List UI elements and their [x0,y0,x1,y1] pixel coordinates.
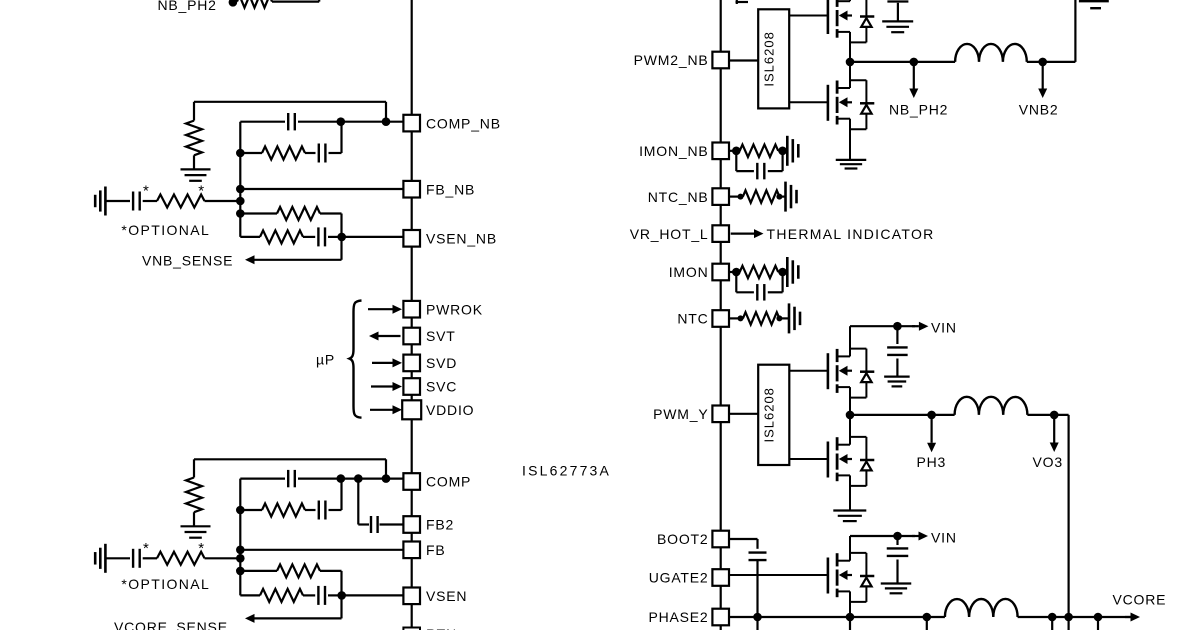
glyph remnant top (cut label) [736,0,749,4]
wire NB_PH2 sense to top edge [272,0,319,2]
junction dot optional [236,554,245,563]
inductor L2 [945,599,1018,617]
wire PHASE2 node [729,616,945,618]
ground Q4 source [833,511,866,522]
junction dot VSEN [337,233,346,242]
pin BOOT2 [657,531,729,548]
pin VR_HOT_L [630,225,729,242]
arrow into VDDIO [370,405,402,414]
junction dot VIN cap phase2 [893,532,902,541]
pin FB2 [403,516,454,533]
wire COMP pin [240,478,403,480]
IC ISL62773A left edge [411,0,413,630]
wire comp top corner down [385,459,387,478]
svg-text:IMON_NB: IMON_NB [639,143,708,159]
ground (rotated right) [786,182,797,212]
junction dot R branch [236,209,245,218]
net label NB_PH2 (top left, cut) [158,0,217,13]
resistor NB_PH2 sense (cut at top) [237,0,272,8]
svg-text:SVD: SVD [426,355,457,371]
svg-text:SVT: SVT [426,328,456,344]
arrow PH3 tap (down) [927,415,936,452]
svg-text:COMP_NB: COMP_NB [426,115,501,131]
ground VIN cap phase2 [881,584,912,594]
node dot NB phase [846,58,855,67]
wire VSEN pin [342,236,404,238]
arrow into SVD [372,358,402,367]
wire sense line [340,595,342,618]
ground below vertical resistor [181,526,211,537]
wire NB phase node [850,61,955,63]
svg-text:VNB_SENSE: VNB_SENSE [142,252,233,268]
wire R branch down [340,214,342,237]
junction dot left [732,147,741,156]
svg-text:ISL6208: ISL6208 [762,387,777,442]
wire comp top [194,101,386,103]
IC ISL62773A right edge [720,0,722,630]
pin COMP_NB [403,115,500,132]
resistor VSEN branch [240,230,315,243]
capacitor optional (series) [105,192,157,211]
junction dot right [778,147,787,156]
wire VSEN pin [342,594,404,596]
wire comp top [194,458,386,460]
svg-text:NB_PH2: NB_PH2 [158,0,217,13]
wire sense line [340,237,342,260]
wire pin to divider [729,150,736,152]
inductor L_NB [955,44,1027,62]
pin UGATE2 [649,569,729,586]
resistor optional (series) [157,552,240,565]
capacitor optional (series) [105,549,157,568]
pin FB_NB [403,181,475,198]
ground optional branch [95,187,105,216]
svg-text:UGATE2: UGATE2 [649,570,709,586]
resistor R branch [240,207,341,220]
asterisk right [198,540,205,557]
svg-text:PWM2_NB: PWM2_NB [634,52,709,68]
transistor Q1 NB high-side [789,0,874,62]
pin VDDIO [402,400,474,419]
svg-text:VO3: VO3 [1033,454,1063,470]
transistor Q5 phase2 high-side [729,536,874,617]
ground VIN cap NB [882,21,913,32]
pin SVT [403,328,455,345]
resistor comp to GND (vertical) [186,459,202,526]
capacitor VSEN branch [318,227,341,246]
capacitor RC branch [319,144,342,163]
ground (rotated right) [787,257,798,287]
svg-text:*: * [198,540,205,557]
svg-text:PWROK: PWROK [426,301,483,317]
svg-text:NB_PH2: NB_PH2 [889,102,948,118]
resistor to GND [736,145,787,157]
node dot Y phase [846,411,855,420]
pin NTC [677,310,729,327]
resistor R branch [240,564,341,577]
net label VIN (phase2) [931,529,957,545]
asterisk right [198,183,205,200]
IC label ISL62773A [522,463,611,479]
wire FB pin [240,188,403,190]
svg-text:RTN: RTN [426,626,457,630]
ground (rotated right) [789,303,800,333]
arrow VIN phase2 [912,532,928,541]
label *OPTIONAL [121,222,210,238]
junction dot bootstrap/PHASE2 [753,613,762,622]
net label VNB_SENSE [142,252,233,268]
junction dot COMP/FB2 [354,474,363,483]
pin PHASE2 [648,609,729,626]
transistor Q4 Y low-side [789,415,874,510]
capacitor parallel branch [736,151,782,180]
label THERMAL INDICATOR [767,226,935,242]
svg-text:VSEN: VSEN [426,588,467,604]
junction dot VCORE c (cut below) [1094,613,1103,630]
inductor L_Y [955,397,1028,415]
label *OPTIONAL [121,576,210,592]
pin FB [403,542,445,559]
capacitor VIN Y [887,326,908,376]
wire PWM2_NB to driver [729,59,758,61]
ground remnant top right (cut) [1079,1,1109,8]
ground below vertical resistor [181,169,211,180]
net label VIN (Y) [931,320,957,336]
svg-text:FB: FB [426,542,446,558]
arrow VCORE [1125,613,1140,622]
junction dot optional [236,197,245,206]
svg-text:THERMAL INDICATOR: THERMAL INDICATOR [767,226,935,242]
svg-text:ISL62773A: ISL62773A [522,463,611,479]
junction dot RC branch [236,149,245,158]
wire bootstrap cap to PHASE2 [756,560,758,630]
svg-text:NTC: NTC [677,311,708,327]
pin SVD [403,355,457,372]
node dot NB_PH2 sense [229,0,238,7]
pin PWM2_NB [634,52,729,69]
wire pin to divider [729,271,736,273]
wire RC branch up to COMP [340,122,342,153]
resistor RC branch [240,504,315,517]
svg-text:ISL6208: ISL6208 [762,31,777,86]
junction dot VNB2 tap [1038,58,1047,67]
net label VCORE [1113,592,1167,608]
capacitor parallel branch [736,272,782,301]
svg-text:*OPTIONAL: *OPTIONAL [121,576,210,592]
wire VIN rail Y [850,325,915,327]
arrow VIN Y [912,322,928,331]
junction dot right [776,315,782,321]
wire left vertical bus [239,122,241,237]
junction dot R branch [236,567,245,576]
capacitor in COMP wire [288,113,295,130]
svg-text:VSEN_NB: VSEN_NB [426,231,497,247]
capacitor FB2 [358,516,403,533]
svg-text:*: * [143,183,150,200]
pin VSEN [403,588,467,605]
transistor Q2 NB low-side [789,62,874,159]
junction dot PH3 tap [927,411,936,420]
asterisk left [143,540,150,557]
pin NTC_NB [648,188,729,205]
wire FB pin [240,549,403,551]
arrow out of SVT [369,332,401,341]
gate driver ISL6208 (NB) [758,9,789,108]
svg-text:FB_NB: FB_NB [426,181,475,197]
capacitor bootstrap C_BOOT2 [749,553,767,561]
svg-text:PH3: PH3 [917,454,947,470]
wire R branch down [340,571,342,596]
asterisk left [143,183,150,200]
uP brace [350,301,362,418]
arrow VR_HOT_L output [731,229,764,238]
capacitor VSEN branch [318,586,341,605]
wire Y phase node [850,414,955,416]
junction dot COMP/RC [337,117,346,126]
junction dot VCORE b VO3 join [1064,613,1073,630]
gate driver ISL6208 (Y) [758,365,789,465]
svg-text:µP: µP [316,352,335,368]
wire FB2 branch down [357,479,359,525]
wire pin to thermistor [729,196,740,198]
net label VO3 [1033,454,1063,470]
junction dot COMP/top wire [382,474,391,483]
arrow sense (to left) [245,255,342,264]
wire VNB2 to top edge [1027,0,1076,62]
arrow VO3 tap (down) [1050,415,1059,452]
arrow VNB2 tap (down) [1038,62,1047,98]
resistor optional (series) [157,195,240,208]
svg-text:*: * [198,183,205,200]
transistor Q3 Y high-side [789,326,874,415]
arrow into SVC [371,382,402,391]
svg-text:SVC: SVC [426,379,457,395]
junction dot VSEN [337,591,346,600]
junction dot left [732,268,741,277]
svg-text:PWM_Y: PWM_Y [653,406,708,422]
wire left vertical bus [239,479,241,596]
junction dot COMP/top wire [382,117,391,126]
pin IMON_NB [639,143,729,160]
junction dot RC branch [236,506,245,515]
wire VIN rail phase2 [850,535,915,537]
ground Q2 source [836,160,867,169]
junction dot PHASE2 tap (cut below) [923,613,932,630]
resistor RC branch [240,147,315,160]
arrow NB_PH2 tap (down) [909,62,918,98]
net label NB_PH2 [889,102,948,118]
wire comp top corner down [385,102,387,122]
junction dot Q5 source/PHASE2 [846,613,855,630]
capacitor RC branch [319,501,342,520]
resistor NTC to GND [743,190,786,202]
resistor to GND [736,266,787,278]
pin VSEN_NB [403,230,497,247]
ground optional branch [95,544,105,573]
svg-text:BOOT2: BOOT2 [657,531,708,547]
svg-text:VNB2: VNB2 [1019,102,1059,118]
wire RC branch up to COMP [340,479,342,510]
svg-text:VR_HOT_L: VR_HOT_L [630,226,709,242]
pin RTN (cut at bottom edge) [403,626,457,630]
net label VNB2 [1019,102,1059,118]
junction dot NB_PH2 tap [910,58,919,67]
capacitor VIN phase2 [887,536,909,583]
pin SVC [403,378,457,395]
capacitor VIN NB (cut at top) [887,2,908,21]
svg-text:VIN: VIN [931,529,957,545]
arrow into PWROK [368,305,402,314]
junction dot left [738,315,744,321]
svg-text:*OPTIONAL: *OPTIONAL [121,222,210,238]
net label PH3 [917,454,947,470]
svg-text:COMP: COMP [426,474,471,490]
junction dot COMP/RC [337,474,346,483]
junction dot FB [236,546,245,555]
resistor NTC to GND [743,312,789,324]
svg-text:NTC_NB: NTC_NB [648,189,709,205]
resistor comp to GND (vertical) [186,102,202,169]
capacitor in COMP wire [288,470,295,487]
pin IMON [669,264,729,281]
svg-text:VDDIO: VDDIO [426,402,474,418]
svg-text:FB2: FB2 [426,517,454,533]
svg-text:VCORE_SENSE: VCORE_SENSE [114,619,228,630]
wire COMP pin [240,121,403,123]
wire PWM_Y to driver [729,413,758,415]
wire pin to thermistor [729,317,740,319]
svg-text:IMON: IMON [669,264,709,280]
junction dot VO3 tap [1050,411,1059,420]
wire VCORE rail [1018,616,1131,618]
uP label [316,352,335,368]
junction dot VIN cap Y [893,322,902,331]
svg-text:VIN: VIN [931,320,957,336]
wire BOOT2 to bootstrap cap [729,539,758,549]
net label VCORE_SENSE [114,619,228,630]
svg-text:VCORE: VCORE [1113,592,1167,608]
junction dot VCORE a (cut below) [1048,613,1057,630]
ground (rotated right) [787,136,798,166]
junction dot right [776,194,782,200]
svg-text:PHASE2: PHASE2 [648,609,708,625]
pin PWM_Y [653,406,729,423]
svg-text:*: * [143,540,150,557]
resistor VSEN branch [240,589,315,602]
pin PWROK [403,301,482,318]
junction dot left [738,194,744,200]
junction dot right [778,268,787,277]
junction dot FB [236,185,245,194]
pin COMP [403,473,471,490]
arrow sense (to left) [245,614,342,623]
ground VIN cap Y [884,377,910,387]
wire VO3 rail down to VCORE [1027,415,1068,617]
